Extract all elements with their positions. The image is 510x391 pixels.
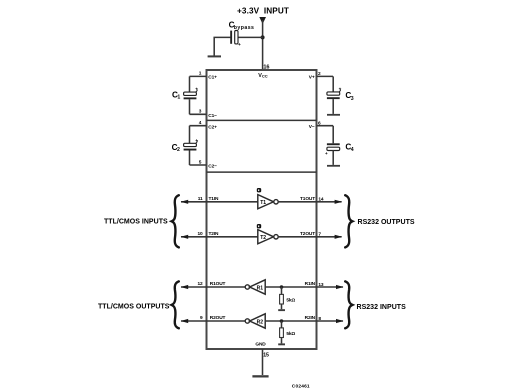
svg-text:bypass: bypass [234, 25, 255, 31]
wire: pin 3 stub [190, 113, 207, 115]
svg-text:C2+: C2+ [208, 124, 217, 130]
arrowhead R2IN (right) [336, 319, 344, 323]
wire: pin 1 stub [190, 75, 207, 77]
capacitor Cbypass [229, 20, 255, 48]
wire: supply vertical to Vcc pin [262, 20, 264, 70]
svg-text:RS232 INPUTS: RS232 INPUTS [357, 304, 407, 311]
svg-text:TTL/CMOS OUTPUTS: TTL/CMOS OUTPUTS [98, 303, 170, 310]
receiver R1 [245, 280, 265, 294]
wire: T1 output line [278, 201, 341, 203]
arrowhead R1IN (right) [336, 285, 344, 289]
capacitor C4 [325, 126, 354, 165]
brace: TTL/CMOS inputs [172, 195, 179, 247]
resistor 5k (R2IN) [280, 321, 296, 343]
svg-text:14: 14 [318, 197, 324, 203]
IC body U1 [207, 70, 317, 349]
logic glyph above T2 [257, 224, 261, 228]
svg-text:3: 3 [351, 96, 354, 102]
brace: TTL/CMOS outputs [172, 281, 179, 328]
svg-text:+: + [195, 138, 198, 143]
svg-text:R2: R2 [257, 319, 264, 325]
svg-text:R1: R1 [257, 285, 264, 291]
svg-text:R1IN: R1IN [305, 281, 316, 287]
arrowhead T1OUT (right) [335, 200, 343, 204]
brace: RS232 outputs [345, 195, 352, 247]
svg-text:RS232 OUTPUTS: RS232 OUTPUTS [358, 219, 415, 226]
charge pump divider 2 [207, 171, 317, 173]
svg-text:4: 4 [351, 147, 354, 153]
svg-text:T2IN: T2IN [209, 231, 219, 237]
svg-text:T2OUT: T2OUT [300, 231, 315, 237]
arrowhead T1IN (left) [181, 200, 189, 204]
svg-text:2: 2 [177, 147, 180, 153]
svg-text:C2−: C2− [208, 164, 217, 170]
capacitor C3 [327, 76, 354, 114]
svg-text:R2OUT: R2OUT [210, 315, 226, 321]
svg-text:V+: V+ [309, 75, 315, 81]
svg-text:V−: V− [309, 124, 315, 130]
node: supply/bypass junction [261, 35, 265, 39]
wire: pin 5 stub [190, 164, 207, 166]
logic glyph above T1 [257, 188, 261, 192]
op-amp/buffer T1 [258, 195, 278, 209]
supply arrowhead [259, 17, 266, 24]
ground (R1 resistor) [278, 309, 285, 311]
svg-text:C02461: C02461 [292, 383, 310, 389]
svg-text:+: + [339, 86, 342, 91]
svg-text:1: 1 [177, 94, 180, 100]
brace: RS232 inputs [345, 281, 352, 328]
wire: T1 input line [181, 201, 258, 203]
ground (R2 resistor) [278, 343, 285, 345]
svg-text:C1+: C1+ [208, 75, 217, 81]
svg-text:R1OUT: R1OUT [210, 281, 226, 287]
ground (C3) [327, 114, 340, 116]
arrowhead T2IN (left) [181, 235, 189, 239]
svg-text:5kΩ: 5kΩ [286, 298, 295, 304]
ground (bypass) [208, 55, 221, 57]
wire: GND pin to ground [262, 349, 264, 375]
svg-text:+: + [238, 43, 241, 48]
svg-text:12: 12 [197, 281, 203, 287]
arrowhead T2OUT (right) [335, 235, 343, 239]
wire: junction to Cbypass [236, 36, 262, 38]
wire: pin 2 stub [317, 75, 334, 77]
wire: T2 output line [278, 236, 341, 238]
wire: Cbypass to ground [214, 37, 230, 55]
svg-text:C1−: C1− [208, 113, 217, 119]
wire: R2 line [181, 320, 245, 322]
capacitor C1 [172, 76, 198, 114]
svg-text:R2IN: R2IN [305, 315, 316, 321]
ground (GND pin) [252, 375, 268, 377]
svg-text:5kΩ: 5kΩ [286, 331, 295, 337]
ground (C4) [327, 165, 340, 167]
node: R1 resistor junction [280, 285, 284, 289]
capacitor C2 [172, 126, 199, 165]
wire: R2 input line [265, 320, 343, 322]
svg-text:13: 13 [318, 282, 324, 288]
node: R2 resistor junction [280, 319, 284, 323]
svg-text:T1IN: T1IN [209, 196, 219, 202]
svg-text:+: + [195, 87, 198, 92]
svg-text:11: 11 [198, 196, 203, 202]
svg-text:T1: T1 [260, 200, 266, 206]
arrowhead R2OUT (left) [181, 319, 189, 323]
receiver R2 [245, 314, 265, 328]
wire: T2 input line [181, 236, 258, 238]
wire: R1 line [181, 286, 245, 288]
wire: R1 input line [265, 286, 343, 288]
svg-text:VCC: VCC [258, 73, 267, 79]
arrowhead R1OUT (left) [181, 285, 189, 289]
svg-text:+3.3V INPUT: +3.3V INPUT [237, 7, 289, 16]
wire: pin 6 stub [317, 125, 334, 127]
op-amp/buffer T2 [258, 230, 278, 244]
svg-text:TTL/CMOS INPUTS: TTL/CMOS INPUTS [104, 218, 168, 225]
wire: pin 4 stub [190, 125, 207, 127]
svg-text:10: 10 [197, 231, 203, 237]
svg-text:+: + [325, 151, 328, 156]
svg-text:15: 15 [263, 353, 269, 359]
resistor 5k (R1IN) [280, 287, 296, 309]
charge pump divider 1 [207, 119, 317, 121]
svg-text:T2: T2 [260, 235, 266, 241]
svg-text:GND: GND [255, 341, 266, 347]
svg-text:T1OUT: T1OUT [300, 196, 315, 202]
